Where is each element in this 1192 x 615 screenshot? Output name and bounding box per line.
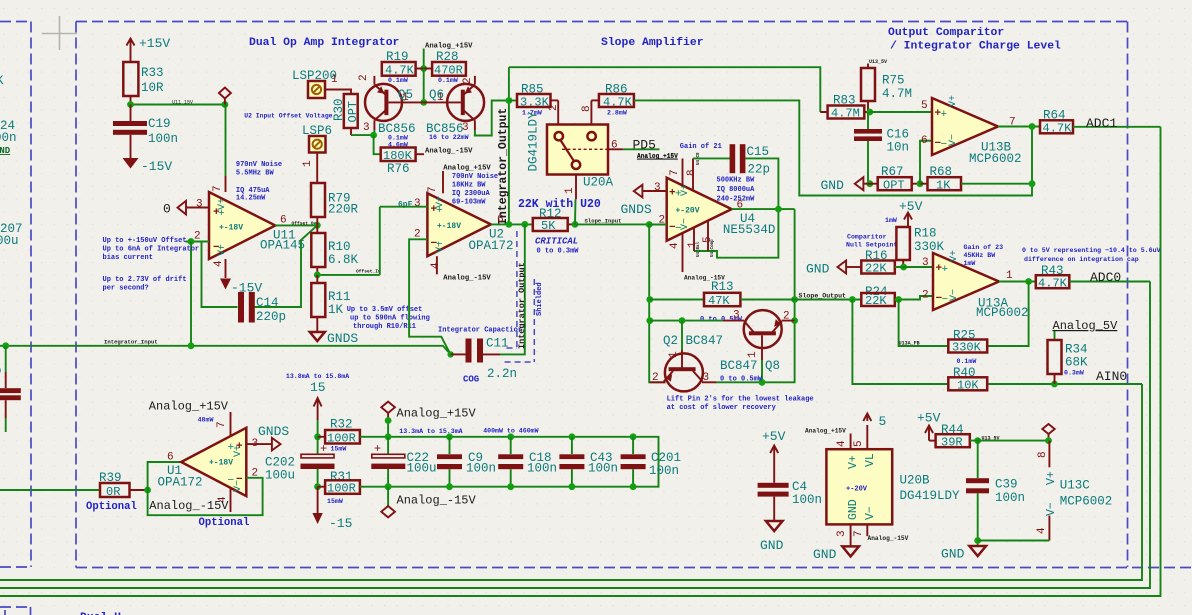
svg-text:NE5534D: NE5534D (723, 223, 776, 237)
svg-text:R33: R33 (141, 66, 164, 80)
svg-text:3: 3 (654, 182, 661, 194)
svg-text:Q6: Q6 (429, 88, 444, 102)
resistor R18 (896, 227, 910, 260)
pin 5 U20B power 5 (863, 414, 871, 450)
svg-text:0: 0 (163, 202, 171, 217)
op-amp U4 NE5534D (667, 178, 732, 241)
svg-text:100n: 100n (588, 462, 618, 476)
no-connect diamond U11_15V (219, 88, 231, 105)
svg-text:330K: 330K (914, 240, 945, 254)
capacitor C11 (447, 351, 453, 357)
svg-text:-15: -15 (329, 516, 352, 531)
svg-text:22p: 22p (748, 163, 771, 177)
svg-text:V+: V+ (217, 198, 228, 210)
svg-text:GND: GND (821, 178, 845, 193)
resistor R75 (867, 64, 869, 69)
svg-text:15mW: 15mW (327, 498, 343, 505)
svg-text:Analog_5V: Analog_5V (1053, 319, 1119, 333)
svg-text:5: 5 (879, 414, 887, 429)
svg-text:V−: V− (864, 506, 877, 520)
wire U13B output (998, 126, 1040, 128)
svg-text:U20B: U20B (900, 474, 931, 488)
svg-text:Analog_+15V: Analog_+15V (149, 400, 229, 414)
svg-text:bias current: bias current (103, 254, 153, 262)
svg-text:2: 2 (783, 311, 790, 323)
svg-text:PD5: PD5 (633, 138, 656, 153)
svg-text:13.8mA to 15.8mA: 13.8mA to 15.8mA (286, 373, 349, 380)
svg-text:GND: GND (0, 146, 11, 156)
capacitor C18 (507, 433, 514, 440)
svg-text:R11: R11 (328, 290, 351, 304)
capacitor C201 (630, 433, 637, 440)
pin 2 U20A (557, 100, 559, 124)
svg-text:1K: 1K (936, 179, 951, 193)
svg-text:CRITICAL: CRITICAL (535, 237, 578, 247)
svg-text:Dual Op Amp Integrator: Dual Op Amp Integrator (249, 37, 400, 49)
wire Integrator_Input (0, 346, 451, 355)
wire ADC1 (1073, 126, 1161, 128)
svg-text:0 to 0.5mW: 0 to 0.5mW (720, 376, 763, 384)
svg-text:Up to +-150uV Offset: Up to +-150uV Offset (103, 237, 187, 245)
svg-text:R30: R30 (332, 98, 346, 121)
svg-text:100R: 100R (327, 482, 356, 496)
svg-text:Analog_-15V: Analog_-15V (149, 499, 229, 513)
wire U11_15V (131, 104, 225, 106)
resistor R34 (1054, 331, 1056, 340)
svg-text:V+: V+ (948, 95, 959, 107)
svg-text:4: 4 (836, 440, 848, 447)
svg-text:U13C: U13C (1060, 479, 1090, 493)
node R19/R28 (420, 65, 427, 72)
svg-text:-15V: -15V (141, 159, 172, 174)
resistor R30 OPT (344, 94, 358, 128)
svg-text:39R: 39R (941, 436, 963, 450)
svg-text:100n: 100n (995, 491, 1025, 505)
svg-text:GND: GND (847, 499, 860, 520)
svg-text:Integrator_Input: Integrator_Input (104, 339, 158, 346)
svg-text:OPT: OPT (883, 179, 905, 193)
power GND under C4 (766, 521, 783, 531)
svg-text:C15: C15 (747, 145, 770, 159)
svg-text:MCP6002: MCP6002 (1060, 495, 1113, 509)
svg-text:OPT: OPT (346, 101, 360, 123)
capacitor at left edge (cut) (5, 346, 7, 372)
diamond Analog_+15V (381, 402, 395, 421)
svg-text:8: 8 (686, 169, 698, 176)
svg-text:/ Integrator Charge Level: / Integrator Charge Level (890, 41, 1061, 53)
pin 6 U20A wire PD5 (608, 148, 623, 150)
svg-text:4.7K: 4.7K (1043, 122, 1073, 136)
svg-text:V+: V+ (435, 196, 446, 208)
svg-text:-15V: -15V (231, 281, 262, 296)
svg-text:4.7K: 4.7K (385, 64, 415, 78)
pin 8 U20A (590, 100, 592, 124)
svg-text:+5V: +5V (762, 429, 786, 444)
svg-text:100n: 100n (148, 132, 178, 146)
svg-text:V−: V− (217, 244, 228, 256)
svg-text:22K: 22K (865, 294, 887, 308)
svg-text:Null Setpoint: Null Setpoint (846, 242, 897, 249)
svg-text:4.7M: 4.7M (882, 87, 912, 101)
svg-text:−: − (942, 294, 949, 306)
svg-text:+-20V: +-20V (846, 486, 868, 494)
svg-text:V+: V+ (847, 455, 860, 469)
svg-text:100R: 100R (327, 432, 356, 446)
wire U4 pin2 down (649, 225, 665, 383)
svg-text:2: 2 (922, 290, 929, 302)
svg-text:2.8mW: 2.8mW (607, 110, 627, 117)
svg-text:0R: 0R (106, 485, 120, 499)
svg-text:5.5MHz BW: 5.5MHz BW (236, 170, 275, 178)
svg-text:V−: V− (435, 241, 446, 253)
svg-text:up to 590nA flowing: up to 590nA flowing (350, 315, 430, 323)
svg-text:330K: 330K (952, 341, 982, 355)
svg-text:OPA145: OPA145 (260, 239, 305, 253)
wire ADC0 (1069, 281, 1150, 283)
svg-text:6: 6 (611, 140, 618, 152)
svg-text:3: 3 (733, 310, 740, 322)
svg-text:V−: V− (949, 289, 960, 301)
svg-text:R34: R34 (1065, 343, 1088, 357)
capacitor C15 (693, 157, 730, 159)
svg-text:6.8K: 6.8K (328, 253, 359, 267)
svg-text:Offset_In: Offset_In (356, 269, 381, 275)
svg-text:4.7K: 4.7K (1038, 277, 1068, 291)
svg-text:V+: V+ (233, 445, 244, 457)
capacitor C4 (758, 483, 789, 488)
svg-text:Analog_-15V: Analog_-15V (397, 494, 477, 508)
capacitor C16 (867, 112, 869, 129)
svg-text:1: 1 (747, 351, 759, 358)
svg-text:3: 3 (196, 199, 203, 211)
svg-text:Analog_+15V: Analog_+15V (397, 407, 477, 421)
svg-text:U11_15V: U11_15V (172, 100, 193, 106)
svg-text:15: 15 (310, 380, 326, 395)
capacitor C19 (130, 105, 132, 122)
svg-text:3.3K: 3.3K (520, 95, 550, 109)
svg-text:180K: 180K (383, 149, 413, 163)
svg-text:1K: 1K (328, 303, 344, 317)
svg-text:C16: C16 (887, 128, 910, 142)
node (222, 101, 229, 108)
svg-text:15mW: 15mW (331, 446, 347, 453)
svg-text:Analog_-15V: Analog_-15V (868, 535, 909, 542)
svg-text:U4_Comp: U4_Comp (711, 239, 715, 257)
svg-text:14.25mW: 14.25mW (236, 195, 266, 203)
pin 4 U20B (850, 434, 852, 450)
svg-text:1: 1 (1006, 270, 1013, 282)
power +15V (127, 39, 135, 63)
svg-text:OPA172: OPA172 (469, 239, 514, 253)
shield dashed box (505, 231, 535, 362)
svg-text:2: 2 (652, 372, 659, 384)
svg-text:V−: V− (1045, 502, 1058, 516)
svg-text:Up to 2.73V of drift: Up to 2.73V of drift (103, 276, 187, 284)
transistor Q6 BC856 (474, 76, 476, 85)
wire to U13B pin5 (870, 111, 932, 113)
svg-text:18KHz BW: 18KHz BW (452, 182, 486, 190)
svg-text:+-18V: +-18V (209, 459, 233, 468)
capacitor C43 (569, 433, 576, 440)
op-amp U13B MCP6002 (932, 98, 998, 155)
svg-text:Integrator Capactior: Integrator Capactior (438, 327, 522, 335)
resistor R11 (311, 283, 325, 317)
svg-text:100n: 100n (649, 464, 679, 478)
power -15 (317, 487, 319, 513)
svg-text:3: 3 (836, 530, 848, 537)
svg-text:2: 2 (548, 104, 560, 111)
svg-text:Integrator_Output: Integrator_Output (517, 262, 527, 349)
svg-text:0 to 0.3mW: 0 to 0.3mW (537, 248, 580, 256)
svg-text:GND: GND (813, 547, 837, 562)
svg-text:2: 2 (462, 77, 474, 84)
svg-text:100u: 100u (407, 462, 437, 476)
diamond Analog_-15V (385, 483, 392, 490)
svg-text:4: 4 (669, 242, 681, 249)
svg-text:Output Comparitor: Output Comparitor (888, 27, 1004, 39)
svg-text:U13_5V: U13_5V (869, 59, 887, 65)
svg-text:1: 1 (302, 160, 314, 167)
svg-text:Slope_Input: Slope_Input (585, 218, 622, 225)
wire ADC0 vertical (0, 282, 1150, 589)
svg-text:Gain of 21: Gain of 21 (680, 143, 722, 151)
resistor R33 (123, 62, 138, 96)
svg-text:Shielded: Shielded (536, 282, 544, 316)
resistor R76 180K (374, 135, 381, 154)
svg-text:220R: 220R (328, 203, 359, 217)
svg-text:+-20V: +-20V (676, 207, 700, 216)
svg-text:68K: 68K (1065, 356, 1088, 370)
wire R86 to comparator feedback (634, 100, 1032, 195)
capacitor C14 net (202, 225, 318, 307)
svg-text:+: + (374, 442, 381, 456)
capacitor C202 (317, 437, 319, 454)
svg-text:2.2n: 2.2n (487, 367, 517, 381)
svg-text:8: 8 (581, 105, 593, 112)
svg-text:VL: VL (864, 453, 877, 467)
wire to R39 (0, 489, 100, 491)
svg-text:+-18V: +-18V (437, 222, 461, 231)
svg-text:ADC1: ADC1 (1086, 116, 1117, 131)
wire R40 row AIN0 (852, 300, 1142, 385)
svg-text:Comparitor: Comparitor (847, 234, 887, 241)
wire ADC1 vertical (0, 127, 1161, 596)
svg-text:IQ 2300uA: IQ 2300uA (452, 190, 491, 198)
svg-text:C201: C201 (651, 451, 681, 465)
svg-text:10n: 10n (887, 141, 910, 155)
svg-text:Analog_+15V: Analog_+15V (443, 165, 491, 173)
svg-text:Analog_-15V: Analog_-15V (425, 148, 473, 156)
svg-text:00u: 00u (0, 234, 19, 248)
svg-text:+: + (941, 109, 948, 121)
svg-text:22K: 22K (865, 262, 887, 276)
wire Slope_Output (795, 299, 862, 301)
power GND under C39 (969, 546, 986, 556)
svg-text:7: 7 (216, 421, 228, 428)
svg-text:V−: V− (680, 218, 691, 230)
svg-text:5: 5 (853, 440, 865, 447)
svg-text:IQ 8000uA: IQ 8000uA (717, 186, 756, 194)
op-amp U2 (427, 193, 491, 256)
svg-text:0 to 5V representing −10.4 to: 0 to 5V representing −10.4 to 5.6uV (1022, 247, 1161, 254)
svg-text:6pF: 6pF (398, 201, 413, 210)
svg-text:GND: GND (941, 547, 965, 562)
svg-text:3: 3 (922, 257, 929, 269)
svg-text:Lift Pin 2's for the lowest le: Lift Pin 2's for the lowest leakage (667, 396, 814, 404)
svg-text:GNDS: GNDS (258, 424, 289, 439)
svg-text:AIN0: AIN0 (1096, 369, 1127, 384)
svg-text:69-103mW: 69-103mW (452, 199, 486, 207)
svg-text:1mW: 1mW (885, 217, 897, 224)
svg-text:C14: C14 (256, 296, 279, 310)
wire U11 pin2 to Integrator_Input (190, 242, 192, 346)
svg-text:0.1mW: 0.1mW (388, 135, 408, 142)
svg-text:2: 2 (358, 74, 370, 81)
wire Integrator_Output vertical (508, 67, 510, 224)
svg-text:−: − (941, 139, 948, 151)
svg-text:Up to 6nA of Integrator: Up to 6nA of Integrator (103, 246, 200, 254)
svg-text:Q5: Q5 (398, 88, 413, 102)
svg-text:Gain of 23: Gain of 23 (964, 244, 1004, 251)
svg-text:MCP6002: MCP6002 (969, 152, 1022, 166)
svg-text:16 to 22mW: 16 to 22mW (429, 134, 469, 141)
svg-text:DG419LDY: DG419LDY (527, 111, 541, 172)
svg-text:at cost of slower recovery: at cost of slower recovery (667, 404, 777, 412)
svg-text:U4_Bal: U4_Bal (696, 241, 701, 257)
svg-text:ADC0: ADC0 (1090, 270, 1121, 285)
wire R24 row (858, 299, 861, 301)
svg-text:V−: V− (233, 480, 244, 492)
svg-text:OPA172: OPA172 (158, 476, 203, 490)
svg-text:13.3mA to 15.3mA: 13.3mA to 15.3mA (399, 428, 462, 435)
wire U13A feedback via R25 (899, 282, 1029, 347)
svg-text:100n: 100n (466, 462, 496, 476)
svg-text:C202: C202 (265, 456, 295, 470)
svg-text:GND: GND (760, 538, 784, 553)
svg-text:Optional: Optional (86, 501, 137, 513)
svg-text:10K: 10K (957, 379, 979, 393)
svg-text:970nV Noise: 970nV Noise (236, 161, 282, 169)
svg-text:C11: C11 (486, 337, 509, 351)
wire R68 feedback (961, 127, 1032, 184)
svg-text:4: 4 (213, 260, 225, 267)
svg-text:10R: 10R (141, 81, 164, 95)
power GNDS under R11 (310, 332, 325, 341)
svg-text:+: + (942, 264, 949, 276)
svg-text:100u: 100u (265, 469, 295, 483)
svg-text:3: 3 (414, 198, 421, 210)
svg-text:0.1mW: 0.1mW (438, 77, 458, 84)
svg-text:Slope_Output: Slope_Output (799, 293, 847, 300)
svg-text:45KHz BW: 45KHz BW (964, 252, 996, 259)
svg-text:COG: COG (463, 375, 479, 385)
svg-text:6: 6 (921, 135, 928, 147)
svg-text:Up to 3.5mV offset: Up to 3.5mV offset (347, 306, 423, 314)
analog switch U20A DG419LDY (547, 125, 608, 175)
svg-text:700nV Noise: 700nV Noise (452, 173, 498, 181)
svg-text:7: 7 (212, 185, 224, 192)
pin 5 U4 (707, 221, 709, 251)
capacitor C22 (385, 433, 392, 440)
pin 1 U20A (575, 175, 577, 200)
svg-text:GNDS: GNDS (621, 202, 652, 217)
svg-text:1: 1 (668, 351, 680, 358)
pin 4 U1 (230, 488, 232, 513)
svg-text:DG419LDY: DG419LDY (900, 489, 961, 503)
power -15V (130, 135, 132, 158)
svg-text:100n: 100n (527, 462, 557, 476)
svg-text:V+: V+ (949, 250, 960, 262)
wire Slope_Input (575, 223, 667, 225)
svg-text:U13A_FB: U13A_FB (899, 341, 920, 347)
svg-text:7: 7 (427, 186, 439, 193)
wire AIN0 vertical (0, 384, 1142, 580)
svg-text:5K: 5K (541, 219, 556, 233)
wire Q6 collector to comparator rail (474, 120, 476, 130)
wire R44 to U13C (970, 440, 1049, 442)
svg-text:3: 3 (363, 122, 370, 134)
svg-text:o: o (0, 364, 2, 378)
node on Integrator_Input at left cap (2, 342, 9, 349)
svg-text:8: 8 (1037, 451, 1049, 458)
wire C15 feedback (694, 158, 778, 257)
power -15V at U11 pin4 (220, 279, 231, 290)
svg-text:0.1mW: 0.1mW (388, 77, 408, 84)
op-amp U11 (209, 192, 275, 259)
svg-text:R18: R18 (914, 227, 937, 241)
svg-text:V−: V− (948, 134, 959, 146)
node (127, 101, 134, 108)
svg-text:MCP6002: MCP6002 (976, 306, 1029, 320)
svg-text:C39: C39 (995, 478, 1018, 492)
wire R16 to U13A pin3 (895, 266, 933, 268)
svg-text:Analog_+15V: Analog_+15V (637, 153, 678, 160)
svg-text:R10: R10 (328, 240, 351, 254)
svg-text:100n: 100n (792, 493, 822, 507)
svg-text:47K: 47K (708, 294, 730, 308)
svg-text:R76: R76 (387, 162, 410, 176)
svg-text:per second?: per second? (103, 285, 149, 293)
svg-text:6: 6 (167, 452, 174, 464)
svg-text:+15V: +15V (139, 36, 170, 51)
wire Q8 collector row (650, 320, 723, 322)
svg-text:00n: 00n (0, 131, 17, 145)
svg-text:C4: C4 (792, 480, 807, 494)
rail Analog_+15V (366, 437, 659, 487)
op-amp U1 OPA172 (mirrored) (148, 462, 182, 490)
svg-text:5: 5 (921, 100, 928, 112)
diamond U13_5V (1042, 424, 1054, 441)
svg-text:470R: 470R (434, 64, 463, 78)
wire bases (423, 69, 425, 103)
svg-text:4: 4 (1036, 527, 1048, 534)
svg-text:U13_5V: U13_5V (982, 436, 1000, 442)
svg-text:difference on integration cap: difference on integration cap (1024, 256, 1139, 263)
pin 3 U20B GND (850, 524, 852, 546)
svg-text:+-18V: +-18V (219, 224, 243, 233)
analog switch U20B DG419LDY (826, 449, 892, 524)
svg-text:BC847 Q8: BC847 Q8 (720, 359, 780, 373)
svg-text:220p: 220p (256, 310, 286, 324)
svg-text:Integrator_Output: Integrator_Output (497, 108, 510, 225)
svg-text:U20A: U20A (583, 176, 614, 190)
transistor Q5 BC856 (373, 76, 375, 85)
svg-text:4.7K: 4.7K (603, 95, 633, 109)
svg-text:7: 7 (669, 169, 681, 176)
pin 1 U4 (693, 227, 695, 251)
svg-text:Slope Amplifier: Slope Amplifier (601, 37, 704, 49)
svg-text:V+: V+ (1045, 471, 1058, 485)
